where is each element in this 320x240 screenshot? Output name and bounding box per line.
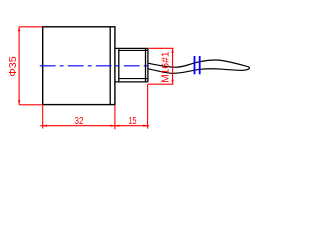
dim 15 arrow left — [115, 125, 119, 127]
body cylinder outline — [43, 27, 115, 105]
extension line at body right — [114, 105, 116, 129]
cable break mark right — [199, 56, 201, 74]
dim phi35 arrow down — [18, 100, 20, 104]
extension line at body left — [42, 105, 44, 128]
centerline axis — [40, 65, 151, 67]
svg-text:15: 15 — [129, 116, 137, 127]
dim phi35 bottom extension — [19, 104, 42, 106]
dim phi35 arrow up — [18, 27, 20, 31]
svg-text:32: 32 — [75, 116, 84, 127]
dim bottom line — [40, 84, 149, 129]
extension line at thread end — [147, 84, 149, 128]
dim phi35 top extension — [19, 26, 42, 28]
dim 15 arrow right — [143, 125, 147, 127]
dim 32 arrow right — [111, 125, 115, 127]
svg-text:Φ35: Φ35 — [8, 56, 19, 77]
thread runout line — [118, 48, 120, 82]
dim phi35 line — [19, 27, 42, 105]
thread tip chamfer line — [145, 48, 147, 82]
dim M16 lower extension — [148, 83, 174, 85]
dim M16 arrow up — [171, 48, 173, 52]
thread outer top line — [115, 47, 148, 49]
thread root bottom line — [119, 78, 148, 80]
thread outer bottom line — [115, 81, 148, 83]
dim M16 arrow down — [171, 80, 173, 84]
svg-text:M16#1: M16#1 — [161, 51, 172, 83]
body end chamfer line — [109, 27, 111, 105]
dim M16 line — [172, 48, 174, 84]
dim M16 upper extension — [148, 48, 174, 84]
thread root top line — [119, 49, 148, 51]
thread end face line — [147, 48, 149, 82]
cable lower edge — [148, 69, 243, 74]
cable upper edge — [148, 60, 244, 67]
cable break mark left — [194, 56, 196, 74]
cable cut tip — [243, 66, 249, 71]
dim 32 arrow left — [43, 125, 47, 127]
